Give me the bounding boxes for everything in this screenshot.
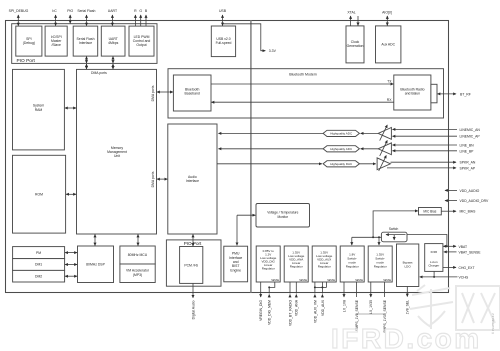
box DM1 [13, 259, 65, 271]
pin VDD_DIG_MEM [268, 282, 275, 325]
wire ROM-MMU [66, 193, 76, 195]
label DMA ports (vertical 2) [151, 171, 155, 187]
box VM Accelerator (MP3) [120, 264, 155, 283]
wire BT_RF [438, 92, 471, 96]
svg-text:(MP3): (MP3) [133, 273, 142, 277]
svg-text:VDD_AUDIO_DRV: VDD_AUDIO_DRV [460, 199, 490, 203]
wire RX [212, 98, 394, 102]
svg-text:LX_1V8: LX_1V8 [342, 300, 346, 312]
Highquality ADC 2 [323, 146, 359, 152]
svg-text:CHG_EXT: CHG_EXT [459, 266, 475, 270]
svg-text:Monitor: Monitor [277, 215, 289, 219]
svg-text:Full-speed: Full-speed [216, 41, 232, 45]
svg-text:Digital Audio: Digital Audio [191, 300, 195, 319]
box PMU Interface and BIST Engine [224, 246, 248, 282]
wire PM-DSP [65, 252, 77, 254]
label DMA ports (vertical 1) [151, 85, 155, 101]
pin VBAT [443, 245, 467, 249]
box Bluetooth Radio and Balun [394, 75, 431, 110]
svg-text:SENSE: SENSE [383, 280, 391, 282]
wire SPKR_AP [387, 166, 476, 170]
pin LX_1V8 [342, 282, 346, 312]
pin VDD_BT_RADIO [288, 282, 292, 326]
svg-text:80MHz DSP: 80MHz DSP [86, 262, 105, 266]
svg-text:I²C: I²C [52, 9, 57, 13]
box 80MHz MCU [120, 246, 155, 264]
svg-text:DMA ports: DMA ports [151, 85, 155, 101]
box ROM [13, 155, 66, 233]
chip outline [6, 21, 449, 293]
wire DAC-amp3 [359, 163, 375, 165]
svg-text:DM2: DM2 [35, 274, 42, 278]
box Voltage/Temperature Monitor [256, 204, 310, 228]
svg-text:VDD_BT_RADIO: VDD_BT_RADIO [288, 300, 292, 326]
svg-text:PM: PM [36, 251, 41, 255]
svg-text:DM1: DM1 [35, 263, 42, 267]
watermark hua [410, 285, 453, 329]
svg-text:1V8_SEL: 1V8_SEL [406, 300, 410, 314]
svg-text:Generation: Generation [347, 44, 364, 48]
wire AudioIF-DAC [217, 163, 322, 165]
pin LX_1V35 [369, 282, 373, 314]
svg-text:IFRD.com: IFRD.com [331, 323, 482, 351]
pin label Serial Flash [77, 9, 95, 26]
wire MIC_BIAS out [441, 210, 476, 214]
pin SMPS_1V8_SENSE [355, 282, 385, 331]
watermark RD.com [331, 323, 482, 351]
wire SPKR_AN [391, 161, 476, 165]
box PCM/I2S [180, 247, 203, 284]
wire TX [211, 80, 393, 84]
pin label USB [219, 9, 227, 26]
svg-text:XTAL: XTAL [347, 10, 355, 14]
svg-text:Aux ADC: Aux ADC [381, 43, 395, 47]
svg-text:SENSE: SENSE [355, 280, 363, 282]
svg-text:Regulator: Regulator [374, 265, 387, 269]
svg-text:MIC_BIAS: MIC_BIAS [460, 210, 477, 214]
pin VBAT_SENSE [444, 250, 481, 254]
svg-text:VCHG: VCHG [459, 275, 469, 279]
svg-text:SENSE: SENSE [327, 280, 335, 282]
svg-text:Output: Output [136, 43, 146, 47]
svg-text:80MHz MCU: 80MHz MCU [128, 253, 148, 257]
svg-text:SPI_DEBUG: SPI_DEBUG [9, 9, 29, 13]
regulator R3 1.35V VDD_AUX [312, 246, 336, 282]
box Li-Ion Charger [425, 244, 443, 272]
svg-text:PIO Port: PIO Port [17, 58, 36, 64]
wire RAM-MMU [65, 107, 76, 109]
label DMA ports (top) [91, 71, 107, 75]
svg-text:Baseband: Baseband [185, 92, 200, 96]
svg-text:Charger: Charger [428, 264, 439, 268]
svg-text:4Mbps: 4Mbps [108, 41, 118, 45]
pin label I2C [52, 9, 57, 26]
wire switch rail [352, 236, 382, 245]
box Memory Management Unit [77, 69, 157, 234]
svg-text:VBAT: VBAT [459, 245, 468, 249]
svg-text:Regulator: Regulator [318, 265, 331, 269]
box USB v2.0 Full-speed [211, 26, 235, 57]
svg-text:SPKR_AN: SPKR_AN [460, 161, 476, 165]
wire AudioIF-PCM [192, 235, 194, 247]
pin CHG_EXT [443, 266, 475, 270]
box Bypass LDO [397, 244, 419, 287]
svg-text:VREGIN_DIG: VREGIN_DIG [259, 300, 263, 321]
svg-text:Unit: Unit [114, 154, 120, 158]
svg-text:RX: RX [387, 98, 392, 102]
svg-text:LINEMIC_AN: LINEMIC_AN [460, 128, 481, 132]
svg-text:VBAT_SENSE: VBAT_SENSE [459, 250, 482, 254]
pins R G B [134, 9, 148, 26]
box UART 4Mbps [101, 26, 125, 56]
pin VDD_ANA [295, 282, 299, 316]
svg-text:PIO Port: PIO Port [184, 241, 202, 246]
regulator R1 0.85-1.2V VDD_DIG [256, 246, 280, 282]
wire SFI-MMU [86, 57, 88, 69]
box I2C/SPI Master/Slave [45, 26, 67, 56]
regulator R2 1.35V VDD_ANA [284, 246, 308, 282]
svg-text:TX: TX [387, 80, 392, 84]
pin Digital Audio [191, 283, 195, 319]
svg-text:AIO[0]: AIO[0] [382, 10, 392, 14]
box Switch [381, 227, 407, 242]
box System RAM [13, 69, 65, 149]
wire UART-MMU [112, 57, 114, 69]
svg-text:SENSE: SENSE [271, 280, 279, 282]
svg-text:Highquality ADC: Highquality ADC [330, 147, 353, 151]
svg-text:Highquality DAC: Highquality DAC [330, 162, 353, 166]
pin SMPS_1V35_SENSE [383, 282, 387, 333]
box SPI (Debug) [16, 26, 42, 56]
Highquality ADC 1 [323, 130, 359, 136]
box PM [13, 247, 65, 259]
wire LINEMIC_AP [393, 135, 481, 139]
pin label SPI_DEBUG [9, 9, 29, 26]
wire DM1-DSP [65, 264, 77, 266]
box Serial Flash Interface [73, 26, 98, 56]
svg-text:G: G [139, 9, 142, 13]
svg-text:RAM: RAM [35, 108, 43, 112]
wire MMU-MCU [137, 235, 139, 246]
wire DM2-DSP [65, 275, 77, 277]
svg-text:SENSE: SENSE [299, 280, 307, 282]
svg-text:Bluetooth Modem: Bluetooth Modem [289, 73, 317, 77]
pin label XTAL [347, 10, 358, 26]
svg-text:USB: USB [219, 9, 227, 13]
svg-text:ROM: ROM [35, 193, 43, 197]
svg-text:VDD_AUX_VM: VDD_AUX_VM [313, 300, 317, 323]
section divider [250, 21, 252, 293]
Highquality DAC [323, 161, 359, 167]
svg-text:VDD_DIG_MEM: VDD_DIG_MEM [268, 300, 272, 325]
svg-text:LDO: LDO [405, 265, 412, 269]
svg-text:LX_1V35: LX_1V35 [369, 300, 373, 314]
box Bluetooth Baseband [173, 75, 211, 111]
wire AudioIF-ADC2 [219, 148, 324, 150]
svg-text:Regulator: Regulator [262, 267, 275, 271]
box Clock Generation [346, 26, 364, 63]
box Aux ADC [376, 26, 401, 63]
wire switch out to VBAT [407, 235, 448, 248]
box 80MHz DSP [78, 246, 114, 283]
balun stub box [431, 84, 437, 103]
svg-text:6V4B: 6V4B [431, 250, 438, 254]
wire 3.3V tap [223, 24, 277, 53]
box MIC Bias [419, 208, 442, 215]
wire VTmon link [237, 215, 255, 245]
wire MMU-Baseband [157, 91, 173, 93]
svg-text:Regulator: Regulator [290, 265, 303, 269]
svg-text:Interface: Interface [186, 179, 199, 183]
pin VDD_AUX [321, 282, 325, 316]
pin label UART [108, 9, 118, 26]
svg-text:DMA ports: DMA ports [151, 171, 155, 187]
svg-text:3.3V: 3.3V [269, 49, 277, 53]
regulator R5 1.35V switch-mode [368, 246, 392, 282]
pin 1V8_SEL [406, 287, 410, 315]
wire MMU-AudioIF [157, 178, 167, 180]
watermark wang [456, 286, 500, 330]
wire amp2-ADC2 [361, 148, 379, 150]
wire LINEMIC_AN [393, 128, 481, 132]
amp triangle 2 [378, 140, 391, 156]
svg-text:LINE_BP: LINE_BP [460, 149, 475, 153]
PIO Port container (bottom) [166, 240, 221, 286]
svg-text:Engine: Engine [230, 268, 241, 272]
wire LINE_BN [393, 144, 475, 148]
pin label AIO[0] [382, 10, 392, 25]
wire MMU-DSP [94, 235, 96, 246]
wire MIC bias feed [373, 211, 418, 237]
svg-text:VDD_AUDIO: VDD_AUDIO [460, 189, 480, 193]
Bluetooth Modem container [168, 69, 444, 118]
svg-text:SPKR_AP: SPKR_AP [460, 166, 476, 170]
box LED PWM Control and Output [129, 26, 154, 56]
wire LINE_BP [393, 149, 475, 153]
svg-text:VDD_ANA: VDD_ANA [295, 299, 299, 316]
svg-text:LINEMIC_AP: LINEMIC_AP [460, 135, 481, 139]
svg-text:UART: UART [108, 9, 118, 13]
svg-text:VDD_AUX: VDD_AUX [321, 299, 325, 316]
pin label PIO [67, 9, 73, 23]
svg-text:Regulator: Regulator [346, 265, 359, 269]
svg-text:LINE_BN: LINE_BN [460, 144, 475, 148]
svg-text:Interface: Interface [79, 41, 92, 45]
svg-text:BT_RF: BT_RF [460, 92, 471, 96]
svg-text:/Slave: /Slave [51, 43, 61, 47]
svg-text:DMA ports: DMA ports [91, 71, 107, 75]
pin VREGIN_DIG [259, 282, 263, 321]
svg-text:PIO: PIO [67, 9, 73, 13]
bus under R3 [314, 282, 327, 288]
pin VCHG [420, 271, 469, 279]
edge code [491, 313, 495, 334]
svg-text:Switch: Switch [389, 227, 399, 231]
amp triangle 3 [377, 155, 390, 171]
svg-text:MIC Bias: MIC Bias [423, 210, 436, 214]
wire amp1-ADC1 [361, 132, 379, 134]
svg-text:(Debug): (Debug) [23, 41, 35, 45]
svg-text:Highquality ADC: Highquality ADC [330, 132, 353, 136]
svg-text:and Balun: and Balun [405, 92, 420, 96]
svg-text:PCM /I²S: PCM /I²S [184, 263, 198, 267]
regulator R4 1.8V switch-mode [340, 246, 364, 282]
box DM2 [13, 270, 65, 282]
svg-text:Serial Flash: Serial Flash [77, 9, 95, 13]
pin VDD_AUDIO_DRV [445, 199, 489, 203]
box Audio Interface [168, 124, 217, 234]
wire AudioIF-ADC1 [219, 132, 324, 134]
PIO Port container (top) [12, 24, 157, 64]
svg-text:© PmW5086-1.2: © PmW5086-1.2 [491, 313, 495, 334]
amp triangle 1 [378, 125, 391, 141]
pin VDD_AUX_VM [313, 282, 317, 323]
pin VDD_AUDIO [445, 189, 480, 193]
